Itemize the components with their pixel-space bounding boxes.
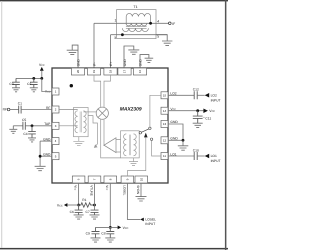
wire VCC stem top left [41, 71, 43, 79]
pin box 1 [52, 88, 59, 95]
svg-text:18: 18 [109, 70, 113, 74]
wire pin12 GND [168, 139, 183, 141]
pin box 9 [121, 176, 134, 183]
capacitor C3 [12, 78, 20, 87]
svg-text:12: 12 [163, 138, 167, 142]
ground C2 [30, 88, 38, 92]
wire amp to output balun stubs [116, 140, 121, 153]
pin box 4 [52, 138, 59, 145]
svg-text:C3: C3 [9, 82, 13, 86]
amp U1 LO buffer triangle [104, 138, 116, 153]
wire mixer LO left leg to output balun [101, 119, 121, 158]
svg-text:VCC: VCC [123, 226, 129, 230]
pin box 16 [133, 68, 146, 75]
junction dot GND right [182, 139, 185, 142]
leader C11 [203, 116, 205, 118]
wire pin6 down [78, 183, 80, 205]
wire LO2 pin15 to switch [150, 95, 161, 127]
pin box 3 [52, 122, 59, 129]
svg-text:T1: T1 [134, 5, 138, 9]
svg-text:INPUT: INPUT [145, 222, 155, 226]
svg-text:16: 16 [138, 70, 142, 74]
transformer T1 primary winding [126, 13, 150, 23]
switch blade [141, 129, 148, 132]
wire C9 rail [96, 226, 118, 228]
wire pin9 LOSEL down [127, 183, 140, 219]
VCC arrow bottom right [118, 226, 122, 230]
page frame left [0, 1, 3, 248]
svg-text:C9: C9 [86, 232, 90, 236]
svg-text:INPUT: INPUT [211, 159, 221, 163]
switch contact LO1 circle [150, 138, 152, 140]
pin box 5 [52, 153, 59, 160]
capacitor C6 [75, 205, 83, 215]
wire pin4 GND [40, 140, 52, 142]
wire mixer IF out left to pin19 [94, 75, 101, 108]
pin box 15 [161, 92, 168, 99]
svg-text:C4: C4 [23, 132, 27, 136]
svg-text:C2: C2 [27, 82, 31, 86]
arrow LO1 input [205, 154, 210, 159]
internal input balun box [74, 108, 89, 137]
capacitor C12 [194, 91, 197, 99]
svg-text:LOSEL: LOSEL [122, 185, 126, 195]
ground pins 12 13 [178, 140, 189, 150]
svg-text:VCC: VCC [209, 109, 215, 113]
switch contact LO2 circle [149, 127, 151, 129]
wire mixer IF out right to pin18 [104, 75, 111, 108]
internal output balun left coil [124, 134, 127, 156]
ground pin20 [67, 45, 78, 68]
svg-text:17: 17 [123, 70, 127, 74]
svg-text:RF: RF [3, 108, 7, 112]
svg-text:14: 14 [163, 109, 167, 113]
page frame top [0, 0, 228, 1]
svg-text:LO2: LO2 [211, 94, 217, 98]
wire pin15 LO2 [168, 94, 194, 96]
IC pin1 indicator dot [70, 84, 73, 87]
wire GND pins down [39, 141, 41, 166]
transformer T1 secondary winding [122, 28, 148, 31]
svg-text:C1: C1 [18, 102, 22, 106]
ground internal input balun [73, 137, 84, 146]
ground C7 [90, 215, 100, 219]
pin box 20 [71, 68, 84, 75]
wire TAP gnd to C5 [13, 125, 23, 127]
wire pin7 down [94, 183, 96, 210]
wire to VCC left arrow [67, 204, 78, 206]
arrow LO2 input [205, 93, 210, 98]
IC U1 body [52, 68, 168, 183]
VCC arrow right [203, 108, 208, 113]
svg-text:15: 15 [163, 93, 167, 97]
wire pin13 GND [168, 124, 183, 140]
internal output balun box [121, 131, 140, 158]
mixer circle [96, 107, 108, 119]
resistor R1 [79, 203, 95, 207]
wire pin8 down [109, 183, 111, 227]
svg-text:4: 4 [157, 19, 159, 23]
wire T1 pin1 to IC pin19 [93, 23, 95, 68]
svg-text:VCC: VCC [57, 203, 63, 207]
capacitor C8 [106, 227, 114, 238]
ground pin10 [136, 197, 147, 201]
wire pin14 VCC [168, 110, 203, 112]
internal output balun right coil [134, 134, 137, 156]
svg-text:SHDN: SHDN [136, 185, 140, 195]
wire C10 to LO1 arrow [197, 155, 205, 157]
svg-text:IF: IF [172, 22, 175, 26]
wire pin11 LO1 [168, 155, 194, 157]
svg-text:C11: C11 [205, 117, 211, 121]
junction dot C11 [196, 109, 199, 112]
junction dot GND pins [39, 155, 42, 158]
svg-text:C7: C7 [85, 210, 89, 214]
internal input balun left coil [75, 111, 78, 133]
pin box 6 [72, 176, 85, 183]
svg-text:11: 11 [163, 154, 166, 158]
wire VCC to pin1 [42, 78, 52, 91]
page frame bottom [0, 248, 228, 250]
wire TAP pin3 to balun [59, 125, 78, 127]
svg-text:C12: C12 [193, 88, 199, 92]
internal output balun core [129, 135, 130, 156]
page frame right [225, 0, 227, 250]
svg-text:R1: R1 [82, 198, 86, 202]
ground pin17 [124, 46, 139, 68]
svg-text:3: 3 [114, 36, 116, 40]
pin box 17 [118, 68, 131, 75]
pin box 7 [88, 176, 101, 183]
pin box 13 [161, 121, 168, 128]
capacitor C1 [19, 106, 21, 114]
pin box 11 [161, 153, 168, 160]
svg-text:GND: GND [123, 58, 127, 66]
pin box 19 [87, 68, 100, 75]
junction dot T1 pin3 node [121, 33, 124, 36]
svg-text:GND: GND [76, 58, 80, 66]
svg-text:C5: C5 [22, 118, 26, 122]
transformer T1 middle winding [126, 23, 147, 26]
wire LO1 pin11 to switch [152, 140, 161, 156]
arrow LOSEL input [140, 218, 144, 222]
ground C8 [105, 238, 115, 242]
svg-text:C6: C6 [70, 210, 74, 214]
svg-text:19: 19 [92, 70, 96, 74]
junction dot pin6 node [77, 204, 80, 207]
wire C12 to LO2 arrow [197, 94, 205, 96]
svg-text:IF+: IF+ [109, 61, 113, 66]
junction dot pin8 node [109, 226, 112, 229]
svg-text:1: 1 [115, 18, 117, 22]
svg-text:10: 10 [139, 178, 143, 182]
capacitor C10 [194, 152, 197, 160]
wire mixer LO right leg to amp [103, 119, 105, 146]
pin box 12 [161, 137, 168, 144]
ground internal output balun [129, 158, 138, 166]
pin box 18 [104, 68, 117, 75]
svg-text:20: 20 [76, 70, 80, 74]
VCC arrow bottom left [64, 203, 68, 207]
junction dot T1 pin4 node [149, 22, 152, 25]
svg-text:IF-: IF- [92, 62, 96, 66]
wire T1 secondary line [111, 34, 168, 36]
svg-text:INPUT: INPUT [211, 98, 221, 102]
svg-text:GND: GND [138, 58, 142, 66]
transformer T1 box [117, 10, 156, 39]
pin box 2 [52, 106, 59, 113]
capacitor C4 [28, 126, 36, 138]
svg-text:C8: C8 [101, 232, 105, 236]
IF output terminal [169, 22, 172, 25]
wire VCC rail [16, 77, 42, 79]
wire RF input to C1 [10, 109, 19, 111]
ground C3 [12, 88, 20, 92]
wire T1 pin3 to IC pin18 [110, 35, 112, 68]
ground TAP left [9, 126, 17, 134]
capacitor C9 [92, 227, 100, 238]
ground C9 [91, 238, 101, 242]
ground C4 [28, 138, 36, 142]
capacitor C5 [23, 122, 25, 130]
pin box 8 [104, 176, 117, 183]
capacitor C7 [91, 210, 99, 215]
ground T1 pin5 [156, 35, 172, 46]
svg-text:VCC: VCC [39, 63, 45, 67]
pin box 14 [161, 107, 168, 114]
junction dot pin7 node [93, 204, 96, 207]
pin box 10 [135, 176, 148, 183]
internal input balun core [80, 112, 81, 133]
internal input balun right coil [83, 111, 86, 133]
wire C1 to pin2 [21, 109, 52, 111]
svg-text:VTUNE: VTUNE [89, 185, 93, 196]
ground C6 [74, 215, 84, 219]
capacitor C11 [193, 111, 203, 124]
wire T1 primary line to IF [94, 22, 168, 24]
wire pin5 GND [40, 155, 52, 157]
ground C11 [193, 123, 203, 127]
svg-text:C10: C10 [193, 148, 199, 152]
svg-text:LOSEL: LOSEL [145, 217, 156, 221]
wire balun to mixer [83, 111, 96, 113]
svg-text:LO1: LO1 [211, 154, 217, 158]
junction dot C2 [32, 77, 35, 80]
mixer X [98, 109, 107, 118]
wire LOSEL pin9 control [127, 137, 145, 176]
junction dot C4 [31, 124, 34, 127]
transformer T1 core [126, 27, 147, 29]
wire C5 to pin3 [25, 125, 52, 127]
ground pin16 [140, 55, 153, 68]
svg-text:13: 13 [163, 122, 167, 126]
junction dot VCC [40, 77, 43, 80]
ground pins 4 5 [35, 166, 46, 170]
capacitor C2 [30, 78, 38, 87]
wire pin10 down [140, 183, 142, 197]
VCC arrow top left [40, 67, 44, 71]
RF input terminal [7, 108, 10, 111]
svg-text:MAX2309: MAX2309 [120, 106, 142, 112]
arrow balun staircase end [94, 144, 97, 147]
wire balun tap staircase [88, 116, 97, 144]
wire RF pin2 to balun [59, 109, 78, 111]
switch common terminal circle [139, 132, 141, 134]
arrow LOSEL control [144, 133, 148, 138]
